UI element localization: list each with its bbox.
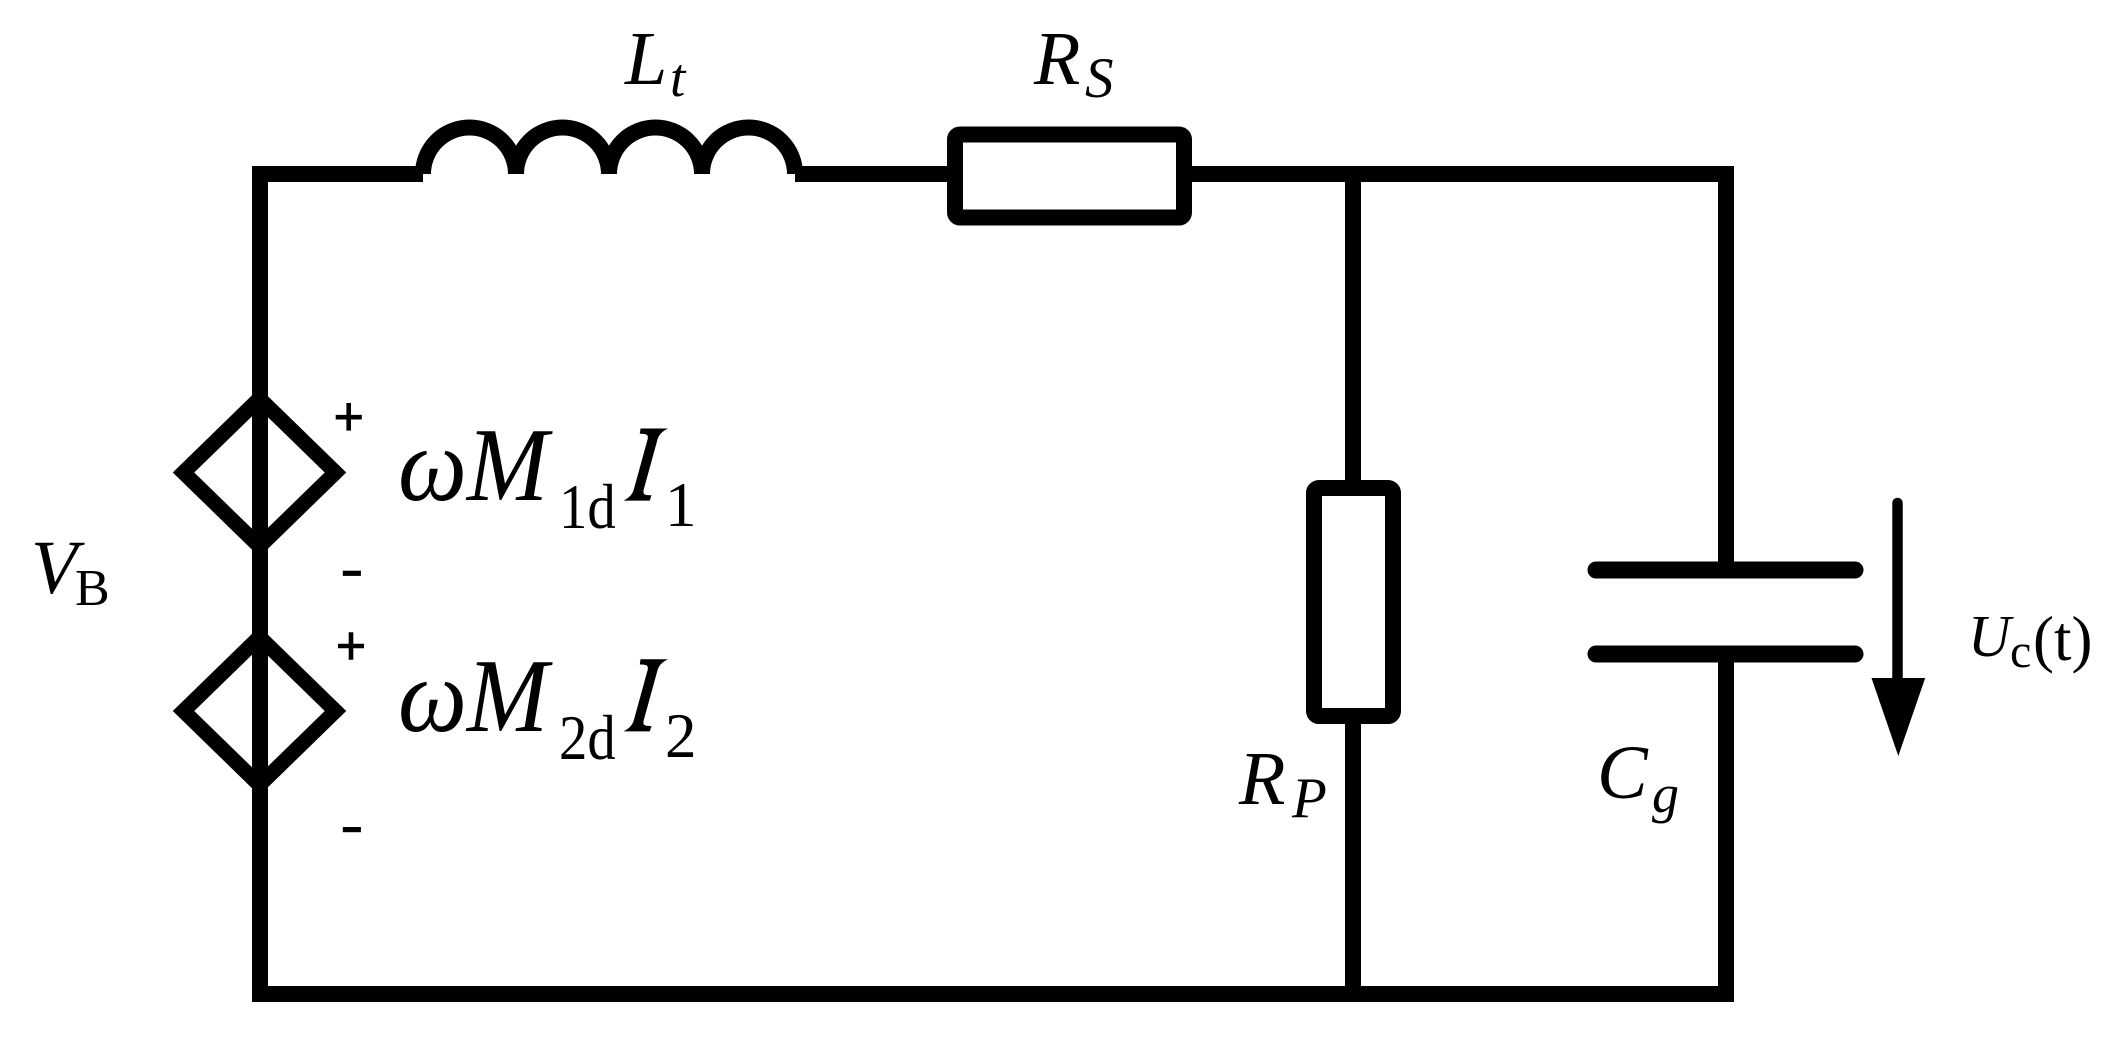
svg-text:g: g <box>1652 764 1679 824</box>
svg-text:P: P <box>1291 767 1327 830</box>
wire: right vertical lower (capacitor to bottom) <box>1718 654 1734 994</box>
svg-text:2: 2 <box>665 701 697 771</box>
svg-text:ωM: ωM <box>398 638 554 754</box>
inductor Lt (4 arcs) <box>423 128 795 175</box>
minus sign (source 2) <box>343 827 361 832</box>
wire: top-left horizontal segment <box>260 166 423 182</box>
wire: Rs to top-right corner <box>1188 166 1726 182</box>
svg-text:R: R <box>1238 737 1285 821</box>
svg-text:R: R <box>1033 17 1080 101</box>
resistor RP body <box>1314 488 1393 716</box>
svg-text:t: t <box>670 47 687 108</box>
resistor RS body <box>955 135 1184 218</box>
svg-text:c: c <box>2010 625 2031 678</box>
minus sign (source 1) <box>343 571 361 576</box>
svg-text:ωM: ωM <box>398 407 554 523</box>
svg-text:B: B <box>75 560 110 617</box>
svg-text:S: S <box>1085 47 1114 110</box>
capacitor Cg top plate <box>1596 562 1855 579</box>
svg-text:1: 1 <box>665 470 697 540</box>
label omega M2d I2 <box>398 638 554 754</box>
wire: right vertical upper (to capacitor) <box>1718 166 1734 570</box>
wire: between inductor and Rs <box>795 166 951 182</box>
svg-text:1d: 1d <box>559 472 616 541</box>
wire: bottom horizontal <box>252 986 1734 1002</box>
plus sign (source 1) <box>336 403 362 431</box>
dependent source 2 (diamond) <box>184 637 336 785</box>
svg-text:C: C <box>1597 731 1649 815</box>
plus sign (source 2) <box>338 632 364 660</box>
dependent source 1 (diamond) <box>184 399 336 547</box>
svg-text:2d: 2d <box>559 703 616 772</box>
capacitor Cg bottom plate <box>1596 646 1855 663</box>
wire: left vertical <box>252 166 268 994</box>
svg-text:L: L <box>624 17 667 101</box>
arrow Uc(t) line <box>1892 503 1903 690</box>
arrow Uc(t) head <box>1872 678 1926 756</box>
label omega M1d I1 <box>398 407 554 523</box>
wire: middle vertical branch (Rp) <box>1345 174 1361 994</box>
svg-text:(t): (t) <box>2033 604 2092 674</box>
svg-text:U: U <box>1968 603 2014 669</box>
